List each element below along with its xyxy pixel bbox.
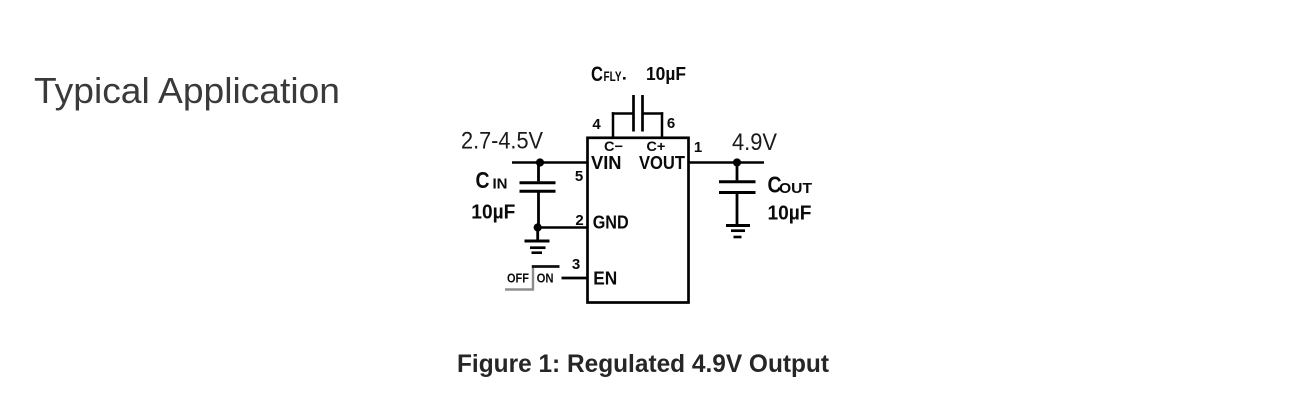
- wire: CIN bottom lead: [537, 193, 540, 228]
- svg-text:C: C: [591, 63, 603, 86]
- junction: input node dot: [536, 158, 544, 166]
- svg-text:5: 5: [575, 168, 583, 185]
- junction: output node dot: [733, 158, 741, 166]
- svg-text:1: 1: [694, 139, 702, 156]
- svg-text:Typical Application: Typical Application: [34, 70, 340, 111]
- svg-text:2: 2: [575, 212, 583, 229]
- svg-text:GND: GND: [593, 212, 629, 233]
- capacitor CFLY (flying capacitor plates): [632, 95, 635, 132]
- wire: COUT bottom lead: [736, 194, 739, 225]
- enable OFF/ON step waveform symbol: [505, 288, 533, 290]
- wire: horizontal to CFLY left plate: [612, 112, 634, 115]
- ground (right ground symbol): [726, 224, 750, 227]
- svg-text:C: C: [476, 167, 490, 193]
- wire: pin 6 lead up from IC top: [661, 112, 664, 139]
- CFLY value label 10uF: [623, 77, 626, 80]
- svg-text:EN: EN: [593, 268, 617, 289]
- svg-text:6: 6: [667, 115, 675, 132]
- svg-text:10µF: 10µF: [768, 201, 812, 224]
- svg-text:OUT: OUT: [779, 180, 812, 197]
- svg-text:FLY: FLY: [604, 69, 622, 84]
- ground (left ground symbol): [536, 228, 539, 241]
- svg-text:10µF: 10µF: [471, 201, 515, 224]
- wire: input to VIN pin 5: [512, 161, 588, 164]
- junction: ground node dot: [534, 223, 542, 231]
- wire: ground node to GND pin 2: [538, 226, 588, 229]
- wire: horizontal to CFLY right plate: [643, 112, 664, 115]
- svg-text:IN: IN: [493, 176, 508, 193]
- svg-text:4: 4: [592, 116, 601, 133]
- svg-text:VOUT: VOUT: [639, 152, 686, 173]
- svg-text:4.9V: 4.9V: [732, 129, 777, 156]
- wire: VOUT pin 1 to output: [689, 161, 765, 164]
- svg-text:3: 3: [572, 256, 580, 273]
- wire: CIN top lead: [537, 163, 540, 182]
- svg-text:ON: ON: [537, 271, 554, 286]
- wire: pin 4 lead up from IC top: [612, 112, 615, 139]
- capacitor CIN plates: [520, 181, 556, 184]
- svg-text:10µF: 10µF: [646, 64, 686, 84]
- wire: enable to EN pin 3: [562, 277, 588, 280]
- wire: COUT top lead: [736, 163, 739, 181]
- svg-text:VIN: VIN: [591, 152, 622, 173]
- capacitor COUT plates: [719, 180, 756, 183]
- svg-text:Figure 1: Regulated 4.9V Outpu: Figure 1: Regulated 4.9V Output: [457, 350, 830, 378]
- op IC U1 box: [588, 138, 689, 303]
- svg-text:OFF: OFF: [507, 271, 529, 286]
- svg-text:2.7-4.5V: 2.7-4.5V: [461, 128, 543, 155]
